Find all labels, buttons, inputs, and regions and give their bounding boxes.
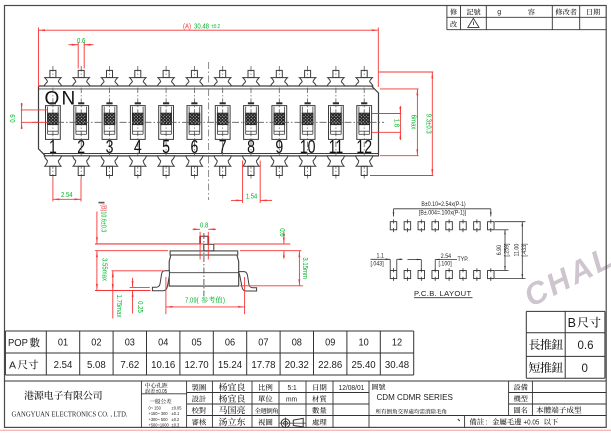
svg-text:±0.05: ±0.05 (156, 389, 168, 395)
switch position 6: top pin, bottom pin, slot, slider, centerline, number 6 (186, 66, 203, 179)
PCB dim B=2.54x(P-1) (393, 202, 492, 217)
svg-text:17.78: 17.78 (251, 360, 276, 371)
switch position 11: top pin, bottom pin, slot, slider, centerline, number 11 (327, 66, 344, 179)
PCB dim 11.00 overall (495, 222, 529, 279)
svg-text:6: 6 (190, 137, 198, 157)
svg-text:09: 09 (325, 337, 335, 348)
dimension 1.54 pin width (231, 161, 272, 204)
svg-text:+150~ 300: +150~ 300 (149, 411, 169, 416)
svg-text:8: 8 (247, 137, 255, 157)
svg-text:04: 04 (158, 337, 169, 348)
svg-text:±0.1: ±0.1 (172, 411, 180, 416)
dimension 6max body width (380, 89, 419, 156)
svg-text:[.100]: [.100] (439, 261, 453, 267)
svg-text:[B±.004=.100x(P-1)]: [B±.004=.100x(P-1)] (419, 210, 467, 216)
svg-text:11: 11 (329, 137, 344, 157)
dimension 1.8 slider height (372, 106, 401, 140)
svg-text:3.15mm: 3.15mm (301, 257, 309, 279)
svg-text:2.54: 2.54 (54, 360, 73, 371)
switch position 12: top pin, bottom pin, slot, slider, centerline, number 12 (356, 66, 373, 179)
svg-text:0.8: 0.8 (200, 222, 209, 230)
vertical centerline between positions 6 and 7 (208, 62, 210, 200)
svg-text:02: 02 (91, 337, 101, 348)
svg-text:5.08: 5.08 (87, 360, 106, 371)
dimension 0.9 slider position (9, 103, 48, 129)
svg-text:(B): (B) (99, 204, 107, 211)
svg-text:4: 4 (134, 137, 142, 157)
svg-text:±0.2: ±0.2 (212, 24, 221, 31)
DIP switch body outline (top view) (39, 86, 379, 156)
body horizontal centerline (32, 121, 384, 123)
switch position 3: top pin, bottom pin, slot, slider, centerline, number 3 (101, 66, 118, 179)
svg-text:2.54: 2.54 (441, 253, 452, 259)
svg-text:B±0.10=2.54x(P-1): B±0.10=2.54x(P-1) (421, 202, 465, 208)
dimension 1.75max (112, 271, 165, 319)
switch position 5: top pin, bottom pin, slot, slider, centerline, number 5 (157, 66, 174, 179)
svg-text:[.433]: [.433] (522, 243, 528, 257)
svg-text::: : (486, 418, 488, 427)
svg-text:12/08/01: 12/08/01 (339, 385, 365, 392)
svg-text:9.3±0.3: 9.3±0.3 (424, 114, 432, 134)
revision triangle symbol (468, 18, 479, 27)
svg-text:12: 12 (392, 337, 402, 348)
B-size table (526, 311, 605, 378)
svg-text:POP: POP (8, 338, 28, 350)
svg-text:7.09(: 7.09( (185, 297, 199, 305)
switch position 9: top pin, bottom pin, slot, slider, centerline, number 9 (271, 66, 288, 179)
dimension (A)30.48±0.2 overall length (39, 23, 379, 87)
pink scan line at bottom edge (0, 429, 611, 431)
dimension 3.15max height (240, 251, 309, 286)
svg-text:25.40: 25.40 (352, 360, 377, 371)
dimension 0.8 actuator width (193, 222, 217, 259)
side view: switch body (169, 255, 239, 286)
dimension (B)10.6 (95, 203, 200, 244)
svg-text:22.86: 22.86 (318, 360, 343, 371)
svg-text:+300~ 500: +300~ 500 (149, 416, 169, 421)
svg-text:A: A (9, 360, 16, 372)
svg-text:30.48: 30.48 (194, 23, 209, 31)
ON marking (45, 89, 76, 110)
svg-text:0.9: 0.9 (9, 114, 17, 123)
dimension 7.09 reference width (166, 277, 245, 314)
svg-text:05: 05 (191, 337, 201, 348)
svg-text:01: 01 (58, 337, 68, 348)
svg-text:20.32: 20.32 (285, 360, 310, 371)
switch position 7: top pin, bottom pin, slot, slider, centerline, number 7 (214, 66, 231, 179)
svg-text:1: 1 (49, 137, 57, 157)
svg-text:12: 12 (356, 137, 372, 157)
svg-text:CDM CDMR SERIES: CDM CDMR SERIES (377, 393, 454, 402)
side view: left gull-wing lead (152, 271, 169, 291)
svg-text:0.6: 0.6 (77, 38, 86, 46)
side view: right gull-wing lead (239, 272, 257, 291)
drawing number CDM CDMR SERIES (372, 384, 453, 414)
svg-text:g: g (497, 9, 501, 16)
svg-text:10.6±0.3: 10.6±0.3 (99, 211, 107, 232)
switch position 8: top pin, bottom pin, slot, slider, centerline, number 8 (242, 66, 259, 179)
revision table (447, 6, 606, 30)
svg-text:6max: 6max (409, 115, 417, 130)
svg-text:1.8: 1.8 (392, 119, 400, 128)
PCB layout: pad array (390, 219, 494, 281)
svg-text:11.00: 11.00 (514, 244, 520, 257)
side view: vertical centerline (203, 233, 205, 296)
svg-text:06: 06 (225, 337, 235, 348)
POP count / A-size table (5, 331, 413, 375)
svg-text:0.25: 0.25 (136, 301, 144, 313)
title block grid (5, 381, 607, 427)
svg-text:2: 2 (77, 137, 85, 157)
svg-text:9: 9 (275, 137, 283, 157)
svg-text:P.C.B. LAYOUT: P.C.B. LAYOUT (414, 289, 471, 298)
svg-text:08: 08 (292, 337, 302, 348)
svg-text:15.24: 15.24 (218, 360, 243, 371)
switch position 1: top pin, bottom pin, slot, slider, centerline, number 1 (44, 66, 61, 179)
dimension 0.6 actuator protrusion (95, 228, 290, 258)
svg-text:07: 07 (258, 337, 268, 348)
svg-text:10.16: 10.16 (151, 360, 176, 371)
watermark CHAL (518, 239, 611, 314)
svg-text:O: O (45, 89, 60, 110)
svg-text:+0.05: +0.05 (524, 419, 540, 427)
dimension 0.25 lead thickness (130, 278, 150, 314)
svg-text:03: 03 (125, 337, 135, 348)
switch position 10: top pin, bottom pin, slot, slider, centerline, number 10 (299, 66, 316, 179)
PCB dim 2.54 TYP pitch (408, 253, 469, 270)
svg-text:±0.3: ±0.3 (172, 422, 180, 427)
svg-text:2.54: 2.54 (61, 192, 73, 200)
svg-text:(A): (A) (183, 23, 191, 31)
side view: cap/lid (170, 251, 238, 255)
svg-text:5:1: 5:1 (288, 385, 297, 392)
svg-text:TYP.: TYP. (458, 257, 469, 263)
svg-text:+500~1000: +500~1000 (149, 422, 170, 427)
svg-text:N: N (62, 89, 76, 110)
svg-text:3: 3 (106, 137, 114, 157)
dimension 0.6 pin stem width (69, 38, 94, 69)
svg-text:GANGYUAN ELECTRONICS CO. , LTD: GANGYUAN ELECTRONICS CO. , LTD. (12, 411, 128, 418)
third angle projection symbols (280, 418, 307, 428)
svg-text:mm: mm (286, 396, 297, 403)
svg-text:10: 10 (300, 137, 316, 157)
svg-text:[.259]: [.259] (504, 243, 510, 257)
svg-text:3.55max: 3.55max (100, 258, 108, 282)
svg-text:[.043]: [.043] (371, 261, 385, 267)
svg-text:7.62: 7.62 (120, 360, 139, 371)
switch position 4: top pin, bottom pin, slot, slider, centerline, number 4 (129, 66, 146, 179)
equipment / model / drawing name cells (514, 384, 582, 414)
svg-text:6.90: 6.90 (497, 245, 503, 255)
tolerance notes (145, 383, 182, 428)
switch position 2: top pin, bottom pin, slot, slider, centerline, number 2 (73, 66, 90, 179)
dimension 3.55max (95, 251, 168, 291)
svg-text:±0.05: ±0.05 (172, 405, 182, 410)
svg-text:30.48: 30.48 (385, 360, 410, 371)
PCB LAYOUT label (414, 289, 473, 298)
dimension 9.3±0.3 overall width (370, 72, 433, 176)
svg-text:1.1: 1.1 (377, 253, 384, 259)
svg-text:5: 5 (162, 137, 170, 157)
side view: actuator knob (200, 236, 214, 251)
PCB dim 6.90 row gap (495, 230, 511, 271)
svg-text:): ) (223, 297, 225, 305)
PCB dim 1.1 pad width (371, 253, 403, 270)
svg-text:B: B (568, 316, 576, 330)
svg-text:0.6: 0.6 (578, 340, 594, 352)
svg-text:1.75max: 1.75max (115, 295, 123, 319)
svg-text:0: 0 (582, 363, 588, 375)
remark line (458, 418, 558, 427)
svg-text:1.54: 1.54 (246, 193, 258, 201)
title block labels and names (192, 383, 365, 426)
svg-text:12.70: 12.70 (185, 360, 210, 371)
svg-text:0~ 150: 0~ 150 (149, 405, 162, 410)
svg-text:0.6: 0.6 (278, 228, 286, 237)
company name (12, 391, 128, 419)
svg-text:7: 7 (219, 137, 227, 157)
dimension 2.54 pin pitch (53, 179, 81, 202)
svg-text:±0.2: ±0.2 (172, 416, 180, 421)
svg-text:10: 10 (358, 337, 368, 348)
